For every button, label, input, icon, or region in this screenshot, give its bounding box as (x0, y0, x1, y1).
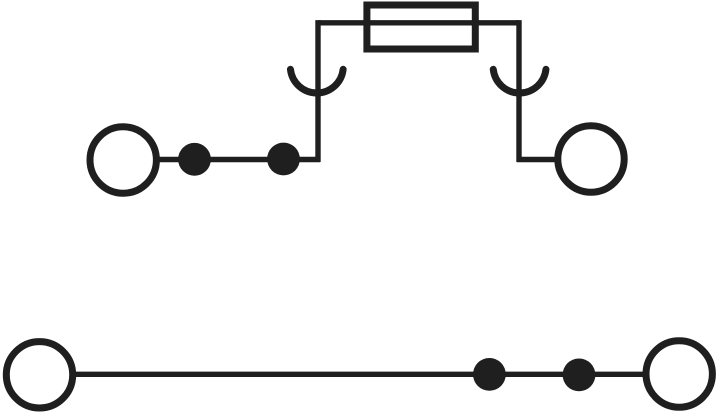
wire upper-left horizontal (157, 157, 320, 162)
junction dot lower 2 (563, 359, 596, 392)
terminal circle top-left (90, 127, 156, 193)
wire right vertical (516, 20, 521, 162)
wire upper-right horizontal (517, 157, 557, 162)
terminal circle bottom-left (6, 342, 72, 408)
terminal circle bottom-right (646, 341, 712, 407)
fuse F1 (367, 5, 475, 49)
junction dot upper 2 (267, 143, 300, 176)
fuse clip contact left (290, 69, 343, 93)
wire bottom horizontal (76, 372, 645, 377)
junction dot lower 1 (473, 358, 506, 391)
terminal circle top-right (558, 126, 624, 192)
wire left vertical (315, 20, 320, 162)
wire top horizontal through fuse (318, 20, 519, 25)
junction dot upper 1 (178, 143, 211, 176)
fuse clip contact right (493, 69, 546, 93)
